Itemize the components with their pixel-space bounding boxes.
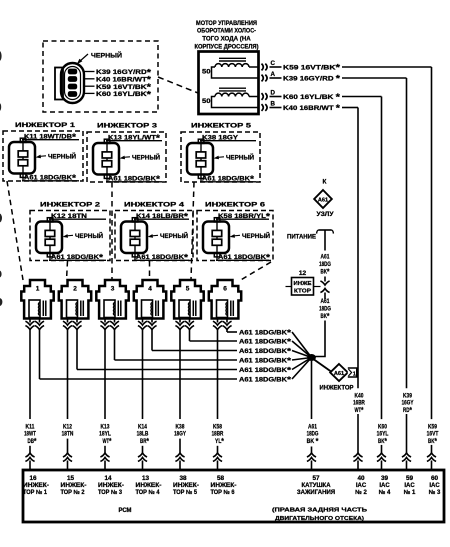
plug 4 wire stubs + connector chevrons [138, 319, 157, 331]
connector 12 ИНЖЕКТОР box [286, 270, 321, 295]
connector face (ИНЖЕКТОР 2) [36, 218, 62, 261]
svg-text:50: 50 [202, 98, 211, 105]
svg-text:A: A [271, 71, 276, 78]
svg-text:K14 18LB/BR*: K14 18LB/BR* [136, 211, 189, 221]
svg-text:6: 6 [223, 285, 227, 292]
svg-text:K60: K60 [378, 423, 387, 430]
svg-text:IAC: IAC [356, 483, 367, 489]
wire A61 18DG/BK* from plug 4 to splice [152, 330, 312, 358]
PCM pin 13 (ИНЖЕК- ТОР № 4) [136, 475, 162, 496]
connector detail box (IAC motor 4-pin, black) [43, 41, 158, 112]
svg-text:ИНЖЕКТОР 1: ИНЖЕКТОР 1 [15, 122, 75, 129]
svg-text:18TN: 18TN [62, 431, 74, 438]
svg-text:A61: A61 [321, 298, 330, 305]
svg-text:ТОР № 4: ТОР № 4 [136, 489, 161, 496]
svg-text:A61 18DG/BK*: A61 18DG/BK* [51, 253, 104, 263]
svg-text:ДВИГАТЕЛЬНОГО ОТСЕКА): ДВИГАТЕЛЬНОГО ОТСЕКА) [275, 516, 364, 522]
svg-text:K11: K11 [26, 423, 35, 430]
motor pin A + wire K39 [262, 71, 407, 84]
injector connector box: ИНЖЕКТОР 1 [3, 122, 83, 181]
plug 1 wire stubs + connector chevrons [25, 319, 44, 331]
label ПИТАНИЕ + feed tap [287, 230, 333, 251]
svg-text:A61 18DG/BK*: A61 18DG/BK* [24, 173, 77, 183]
connector face (ИНЖЕКТОР 1) [9, 138, 35, 181]
coil L1 (upper winding) + core [202, 58, 258, 78]
wire label A61 18DG BK* (lower) [319, 298, 331, 321]
svg-text:39: 39 [381, 475, 389, 482]
svg-text:ЧЕРНЫЙ: ЧЕРНЫЙ [75, 231, 103, 240]
plug 3 wire stubs + connector chevrons [100, 319, 119, 331]
svg-text:K60 16YL/BK*: K60 16YL/BK* [96, 89, 152, 99]
svg-text:K59: K59 [428, 423, 437, 430]
svg-text:К: К [323, 179, 327, 186]
wire label A61 18DG/BK* (ИНЖЕКТОР 1) [22, 173, 79, 183]
svg-text:14: 14 [104, 475, 112, 482]
PCM pin 40 (IAC № 2) [355, 475, 367, 496]
wire K14 plug 4 to PCM pin [137, 330, 150, 470]
svg-text:18GY: 18GY [174, 431, 186, 438]
svg-text:58: 58 [217, 475, 225, 482]
injector plug 4 [134, 280, 166, 319]
label ЧЕРНЫЙ (ИНЖЕКТОР 1) [36, 151, 77, 160]
svg-text:A61 18DG/BK*: A61 18DG/BK* [239, 365, 292, 375]
svg-text:ЧЕРНЫЙ: ЧЕРНЫЙ [91, 51, 122, 60]
inline connector (injector harness feed) [320, 277, 329, 297]
svg-text:КТОР: КТОР [294, 289, 311, 295]
PCM box [23, 470, 444, 522]
PCM internal labels [119, 507, 368, 522]
svg-text:K59 16VT/BK*: K59 16VT/BK* [283, 63, 341, 73]
svg-text:K14: K14 [138, 423, 147, 430]
wire K58 plug 6 to PCM pin [212, 330, 225, 470]
wire labels K39/K40/K59/K60 (detail box) [84, 67, 152, 99]
wire label K11 18WT/DB* (ИНЖЕКТОР 1) [22, 132, 79, 142]
connector face (ИНЖЕКТОР 6) [203, 218, 229, 261]
svg-text:K39 16GY/RD *: K39 16GY/RD * [283, 74, 341, 84]
svg-text:5: 5 [186, 285, 190, 292]
svg-text:ЧЕРНЫЙ: ЧЕРНЫЙ [132, 152, 160, 161]
svg-text:3: 3 [111, 285, 115, 292]
svg-text:A61 18DG/BK*: A61 18DG/BK* [239, 328, 292, 338]
svg-text:BK*: BK* [321, 311, 330, 321]
connector pins (4, black) [68, 69, 77, 97]
svg-text:КОРПУСЕ ДРОССЕЛЯ): КОРПУСЕ ДРОССЕЛЯ) [195, 43, 259, 50]
svg-text:ИНЖЕКТОР 5: ИНЖЕКТОР 5 [191, 123, 251, 130]
svg-text:ИНЖЕК-: ИНЖЕК- [23, 483, 49, 489]
svg-text:K13 18YL/WT*: K13 18YL/WT* [108, 133, 161, 143]
wire K40 vertical to PCM [353, 108, 365, 471]
svg-text:ТОР № 1: ТОР № 1 [23, 489, 48, 496]
wire label A61 18DG/BK* (ИНЖЕКТОР 3) [106, 174, 162, 184]
svg-text:K60 16YL/BK *: K60 16YL/BK * [283, 92, 341, 102]
injector connector box: ИНЖЕКТОР 2 [30, 202, 110, 261]
coil L2 (lower winding) + core [202, 88, 258, 107]
svg-text:BK*: BK* [378, 436, 387, 446]
svg-text:BK *: BK * [307, 436, 319, 446]
svg-text:A61 18DG/BK*: A61 18DG/BK* [218, 253, 271, 263]
svg-text:A61 18DG/BK*: A61 18DG/BK* [239, 356, 292, 366]
dashed leader: box 1 to plug 1 [7, 181, 23, 280]
svg-text:УЗЛУ: УЗЛУ [317, 211, 334, 218]
injector connector box: ИНЖЕКТОР 6 [197, 202, 273, 261]
off-page reference A61 >1 ИНЖЕКТОР [314, 360, 357, 392]
wire label A61 18DG/BK* (ИНЖЕКТОР 6) [216, 253, 271, 263]
svg-text:№ 2: № 2 [355, 489, 367, 496]
svg-text:K38 18GY: K38 18GY [202, 135, 239, 142]
svg-text:IAC: IAC [429, 483, 440, 489]
svg-text:A61 18DG/BK*: A61 18DG/BK* [239, 337, 292, 347]
svg-text:(ПРАВАЯ ЗАДНЯЯ ЧАСТЬ: (ПРАВАЯ ЗАДНЯЯ ЧАСТЬ [272, 508, 367, 514]
svg-text:D: D [271, 89, 276, 96]
injector plug 1 [21, 280, 53, 319]
wire label A61 18DG/BK* (ИНЖЕКТОР 2) [49, 253, 106, 263]
svg-text:ЗАЖИГАНИЯ: ЗАЖИГАНИЯ [297, 490, 335, 496]
svg-text:ИНЖЕК-: ИНЖЕК- [136, 483, 162, 489]
svg-text:ИНЖЕКТОР 2: ИНЖЕКТОР 2 [40, 202, 100, 209]
svg-text:A61: A61 [318, 198, 328, 204]
wire K12 plug 2 to PCM pin [62, 330, 74, 470]
svg-text:K12 18TN: K12 18TN [51, 213, 87, 220]
svg-text:K40 16BR/WT *: K40 16BR/WT * [283, 103, 341, 113]
IAC motor title [195, 20, 259, 50]
wire label K14 18LB/BR* (ИНЖЕКТОР 4) [134, 211, 189, 221]
svg-text:50: 50 [202, 69, 211, 76]
wire from connector to splice [314, 297, 325, 357]
svg-text:A61 18DG/BK*: A61 18DG/BK* [202, 174, 255, 184]
svg-text:38: 38 [179, 475, 187, 482]
svg-text:12: 12 [299, 270, 307, 277]
connector face (ИНЖЕКТОР 5) [187, 139, 213, 182]
svg-text:ТОР № 2: ТОР № 2 [61, 489, 86, 496]
svg-text:ЧЕРНЫЙ: ЧЕРНЫЙ [160, 231, 188, 240]
connector face (ИНЖЕКТОР 3) [93, 139, 119, 182]
wire label A61 18DG/BK* (ИНЖЕКТОР 4) [134, 253, 189, 263]
injector plug 3 [96, 280, 128, 319]
wire label K38 18GY (ИНЖЕКТОР 5) [200, 135, 256, 142]
svg-text:№ 3: № 3 [429, 489, 441, 496]
svg-text:K38: K38 [176, 423, 185, 430]
dashed leader: box 5 to plug 5 [191, 182, 194, 280]
wire K60 vertical to PCM [377, 97, 389, 471]
label ЧЕРНЫЙ (ИНЖЕКТОР 5) [214, 152, 255, 161]
wire K39 vertical to PCM [402, 78, 414, 470]
dashed leader: box 6 to plug 6 [239, 262, 271, 281]
svg-text:K40: K40 [355, 393, 364, 400]
svg-text:RD*: RD* [403, 405, 412, 415]
injector connector box: ИНЖЕКТОР 5 [181, 123, 260, 183]
svg-text:59: 59 [406, 475, 414, 482]
wire K11 plug 1 to PCM pin [24, 330, 37, 470]
svg-text:ЧЕРНЫЙ: ЧЕРНЫЙ [242, 231, 270, 240]
dashed leader: box 3 to plug 3 [111, 182, 113, 280]
node symbol: К УЗЛУ A61 (diamond) [314, 179, 333, 219]
svg-text:A61 18DG/BK*: A61 18DG/BK* [108, 174, 161, 184]
dashed leader: box 4 to plug 4 [149, 261, 151, 280]
svg-text:BR*: BR* [140, 436, 149, 446]
injector plug 6 [209, 280, 241, 319]
svg-text:K11 18WT/DB*: K11 18WT/DB* [24, 132, 77, 142]
svg-text:B: B [271, 100, 276, 107]
plug 2 wire stubs + connector chevrons [63, 319, 82, 331]
plug 6 wire stubs + connector chevrons [213, 319, 232, 331]
svg-text:ТОР № 5: ТОР № 5 [173, 489, 198, 496]
svg-text:60: 60 [431, 475, 439, 482]
injector plug 2 [59, 280, 91, 319]
label ЧЕРНЫЙ with arrow (detail box) [77, 51, 122, 65]
svg-text:ЧЕРНЫЙ: ЧЕРНЫЙ [226, 152, 254, 161]
svg-text:C: C [271, 60, 276, 67]
svg-text:4: 4 [148, 285, 152, 292]
svg-text:ИНЖЕ: ИНЖЕ [294, 281, 312, 287]
wire A61 18DG/BK* from plug 5 to splice [190, 330, 312, 358]
svg-text:57: 57 [312, 475, 320, 482]
svg-text:ИНЖЕКТОР 6: ИНЖЕКТОР 6 [205, 202, 265, 209]
svg-text:ТОР № 6: ТОР № 6 [211, 489, 236, 496]
svg-text:40: 40 [357, 475, 365, 482]
svg-text:ИНЖЕК-: ИНЖЕК- [98, 483, 124, 489]
wire K13 plug 3 to PCM pin [99, 330, 112, 470]
PCM pin 57 (КАТУШКА ЗАЖИГАНИЯ) [297, 475, 335, 496]
PCM pin 15 (ИНЖЕК- ТОР № 2) [61, 475, 87, 496]
label ЧЕРНЫЙ (ИНЖЕКТОР 3) [120, 152, 161, 161]
wire A61 18DG/BK* from plug 2 to splice [77, 330, 312, 375]
wire A61 18DG/BK* from plug 1 to splice [40, 330, 312, 385]
svg-text:1: 1 [36, 285, 40, 292]
svg-text:K12: K12 [63, 423, 72, 430]
svg-text:ОБОРОТАМИ ХОЛОС-: ОБОРОТАМИ ХОЛОС- [197, 28, 256, 35]
svg-text:A61 18DG/BK*: A61 18DG/BK* [239, 346, 292, 356]
svg-text:K39: K39 [403, 393, 412, 400]
IAC motor box [199, 52, 259, 115]
svg-text:DB*: DB* [28, 436, 37, 446]
svg-text:КАТУШКА: КАТУШКА [301, 483, 331, 489]
svg-text:16: 16 [29, 475, 37, 482]
wire label K58 18BR/YL* (ИНЖЕКТОР 6) [216, 211, 271, 221]
svg-text:K58 18BR/YL*: K58 18BR/YL* [218, 211, 271, 221]
wire A61 splice to PCM pin 57 [307, 361, 319, 470]
svg-text:№ 4: № 4 [379, 489, 391, 496]
svg-text:A61 18DG/BK*: A61 18DG/BK* [239, 375, 292, 385]
svg-text:YL*: YL* [215, 436, 224, 446]
dashed leader: detail box to IAC motor [158, 77, 198, 93]
svg-text:15: 15 [67, 475, 75, 482]
svg-text:РСМ: РСМ [119, 507, 132, 514]
wire label A61 18DG/BK* (ИНЖЕКТОР 5) [200, 174, 256, 184]
svg-text:A61 18DG/BK*: A61 18DG/BK* [136, 253, 189, 263]
plug 5 wire stubs + connector chevrons [175, 319, 194, 331]
svg-text:ИНЖЕКТОР 3: ИНЖЕКТОР 3 [97, 123, 157, 130]
svg-text:16GY: 16GY [402, 400, 414, 407]
svg-text:A61: A61 [334, 371, 344, 377]
svg-text:A61: A61 [321, 254, 330, 261]
wire K38 plug 5 to PCM pin [174, 330, 186, 470]
svg-text:№ 1: № 1 [404, 489, 416, 496]
connector body side-view (oval, 4-pin) [55, 63, 84, 103]
svg-text:ТОГО ХОДА (НА: ТОГО ХОДА (НА [202, 36, 251, 43]
svg-text:ЧЕРНЫЙ: ЧЕРНЫЙ [48, 151, 76, 160]
svg-text:ИНЖЕКТОР: ИНЖЕКТОР [320, 384, 355, 391]
svg-text:BK*: BK* [428, 436, 437, 446]
svg-text:BK*: BK* [321, 267, 330, 277]
wire label K12 18TN (ИНЖЕКТОР 2) [49, 213, 106, 220]
PCM pin 60 (IAC № 3) [429, 475, 441, 496]
dashed leader: box 2 to plug 2 [67, 261, 68, 280]
wire label A61 18DG BK* (upper) [319, 254, 331, 277]
svg-text:ПИТАНИЕ: ПИТАНИЕ [287, 233, 317, 240]
svg-text:13: 13 [142, 475, 150, 482]
svg-text:ИНЖЕК-: ИНЖЕК- [61, 483, 87, 489]
svg-text:ИНЖЕК-: ИНЖЕК- [173, 483, 199, 489]
svg-text:WT*: WT* [355, 405, 364, 415]
splice junction S1 (A61) [307, 354, 316, 361]
label ЧЕРНЫЙ (ИНЖЕКТОР 4) [148, 231, 189, 240]
svg-text:WT*: WT* [103, 436, 112, 446]
svg-text:ИНЖЕКТОР 4: ИНЖЕКТОР 4 [124, 202, 184, 209]
svg-text:2: 2 [73, 285, 77, 292]
wire A61 18DG/BK* from plug 3 to splice [115, 330, 312, 366]
motor pin C + wire K59 [262, 60, 432, 73]
wire A61 18DG/BK* from plug 6 to splice [227, 328, 312, 358]
wire label K13 18YL/WT* (ИНЖЕКТОР 3) [106, 133, 162, 143]
connector face (ИНЖЕКТОР 4) [121, 218, 147, 261]
PCM pin 58 (ИНЖЕК- ТОР № 6) [211, 475, 237, 496]
svg-text:ТОР № 3: ТОР № 3 [98, 489, 123, 496]
motor pin D + wire K60 [262, 89, 382, 102]
label ЧЕРНЫЙ (ИНЖЕКТОР 6) [230, 231, 271, 240]
PCM pin 16 (ИНЖЕК- ТОР № 1) [23, 475, 49, 496]
injector connector box: ИНЖЕКТОР 4 [115, 202, 193, 261]
label ЧЕРНЫЙ (ИНЖЕКТОР 2) [63, 231, 104, 240]
PCM pin 59 (IAC № 1) [404, 475, 416, 496]
svg-text:IAC: IAC [404, 483, 415, 489]
svg-text:ИНЖЕК-: ИНЖЕК- [211, 483, 237, 489]
svg-text:IAC: IAC [379, 483, 390, 489]
PCM pin 38 (ИНЖЕК- ТОР № 5) [173, 475, 199, 496]
injector plug 5 [171, 280, 203, 319]
motor pin B + wire K40 [262, 100, 359, 113]
scan artifacts (page edge marks) [0, 51, 2, 306]
svg-text:K13: K13 [101, 423, 110, 430]
svg-text:A61: A61 [308, 423, 317, 430]
wire K59 vertical to PCM [427, 67, 439, 470]
injector connector box: ИНЖЕКТОР 3 [87, 123, 166, 183]
svg-text:МОТОР УПРАВЛЕНИЯ: МОТОР УПРАВЛЕНИЯ [196, 20, 257, 27]
svg-text:K58: K58 [213, 423, 222, 430]
PCM pin 39 (IAC № 4) [379, 475, 391, 496]
PCM pin 14 (ИНЖЕК- ТОР № 3) [98, 475, 124, 496]
